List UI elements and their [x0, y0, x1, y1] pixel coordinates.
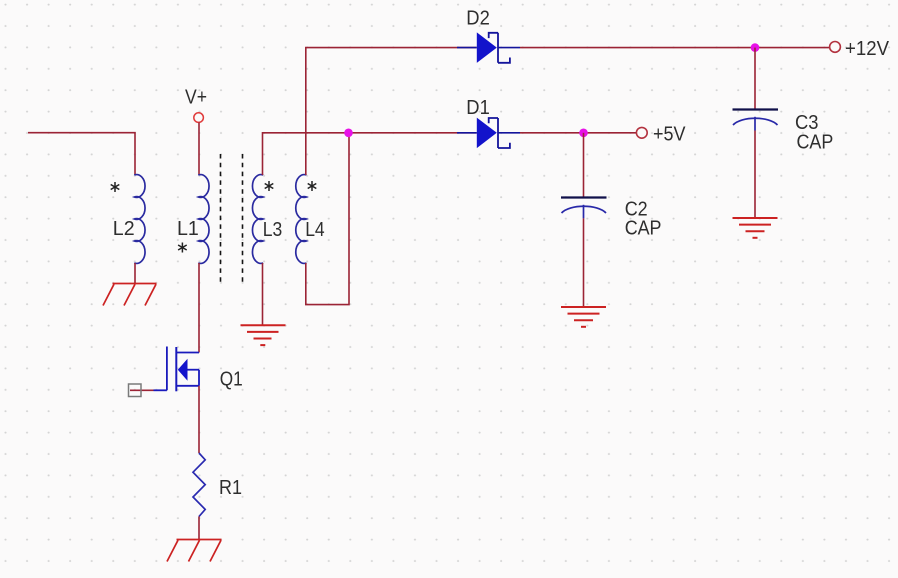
svg-text:V+: V+ [185, 86, 207, 108]
junction node at C3 branch [751, 43, 760, 52]
svg-text:Q1: Q1 [220, 369, 243, 391]
earth ground under C3 [733, 218, 778, 238]
inductor L1 [198, 175, 209, 264]
wire C3 to ground [754, 131, 756, 219]
wire D2 cathode rail to +12V [520, 47, 830, 49]
chassis ground under R1 [167, 540, 222, 562]
inductor L3 [252, 175, 263, 264]
polarity asterisk L4 [308, 181, 317, 191]
transistor Q1 (NMOS) [154, 347, 200, 392]
svg-text:CAP: CAP [797, 132, 834, 154]
svg-text:+5V: +5V [653, 123, 686, 145]
label D2 [466, 8, 490, 30]
resistor R1 [193, 453, 205, 517]
svg-text:CAP: CAP [625, 217, 662, 239]
label Q1 [220, 369, 243, 391]
svg-text:D2: D2 [466, 8, 490, 30]
polarity asterisk L1 [178, 243, 187, 253]
capacitor C3 [733, 110, 779, 131]
junction node at C2 branch [579, 129, 588, 138]
inductor L2 [134, 175, 145, 264]
wire R1 to ground [198, 517, 200, 540]
label D1 [466, 97, 490, 119]
transformer core dashed lines [221, 154, 243, 282]
wire C3 branch drop [754, 48, 756, 110]
svg-text:L2: L2 [113, 218, 135, 240]
wire V+ stem to L1 top [198, 123, 200, 176]
polarity asterisk L3 [265, 181, 274, 191]
earth ground under C2 [561, 307, 606, 327]
wire L3 top riser and rail to D1 anode [263, 133, 477, 175]
wire D1 cathode rail to +5V [520, 132, 637, 134]
wire L2 bottom to ground [134, 263, 136, 284]
svg-text:+12V: +12V [845, 38, 890, 60]
wire L1 bottom to Q1 drain [198, 263, 200, 353]
svg-text:C3: C3 [795, 112, 819, 134]
wire L3 bottom to ground [262, 263, 264, 325]
capacitor C2 [561, 198, 607, 219]
diode D2 (schottky) [457, 32, 520, 63]
label L4 [305, 219, 325, 241]
terminal V+ [185, 86, 207, 122]
wire left open end to L2 top [28, 133, 135, 175]
chassis ground under L2 [103, 284, 157, 306]
junction node at D1 anode rail [344, 129, 353, 138]
svg-text:L1: L1 [177, 218, 199, 240]
svg-text:L4: L4 [305, 219, 325, 241]
terminal +12V [830, 38, 890, 60]
label R1 [219, 477, 242, 499]
wire D2 riser from L4 top and rail to D2 anode [306, 48, 477, 175]
wire C2 to ground [583, 218, 585, 307]
wire gate red lead [130, 389, 154, 391]
polarity asterisk L2 [111, 182, 120, 192]
inductor L4 [296, 175, 307, 264]
label L2 [113, 218, 135, 240]
terminal +5V [636, 123, 686, 145]
wire L4 bottom loop to D1 node [306, 133, 349, 305]
label L1 [177, 218, 199, 240]
wire C2 branch drop [583, 133, 585, 198]
diode D1 (schottky) [457, 118, 520, 149]
label C2 / CAP [625, 198, 662, 239]
wire Q1 source to R1 [198, 386, 200, 453]
gate input port box [129, 384, 142, 397]
label L3 [263, 219, 283, 241]
earth ground under L3 [241, 325, 286, 345]
svg-text:D1: D1 [466, 97, 490, 119]
svg-text:R1: R1 [219, 477, 242, 499]
svg-text:L3: L3 [263, 219, 283, 241]
label C3 / CAP [795, 112, 833, 154]
